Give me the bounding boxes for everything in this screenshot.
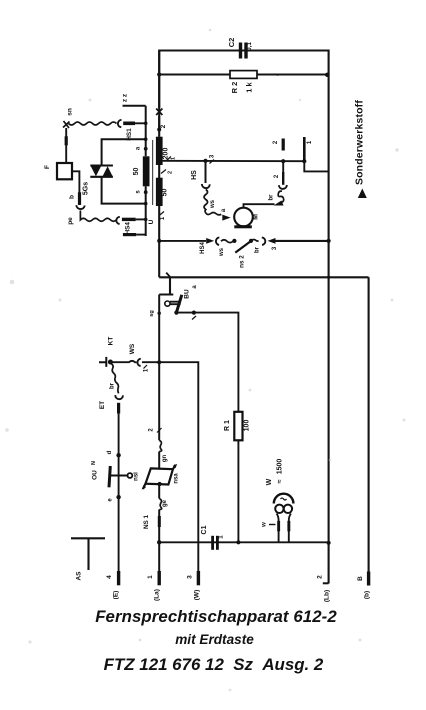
svg-text:N: N xyxy=(91,461,97,465)
node HS1 junction xyxy=(144,122,148,126)
contact hook row right xyxy=(262,237,266,245)
svg-text:R 2: R 2 xyxy=(230,82,239,94)
wire right rail V2 xyxy=(328,75,330,584)
svg-text:0,1: 0,1 xyxy=(246,42,253,51)
svg-text:C1: C1 xyxy=(201,525,208,534)
node R1 at bottom rail xyxy=(236,540,240,544)
cord ws coil xyxy=(204,190,221,215)
wire HS1 to rail xyxy=(135,122,146,124)
pin tick x1 between windings xyxy=(167,157,172,161)
pin tick 1 below winding 50 xyxy=(159,212,164,216)
svg-text:OU: OU xyxy=(92,470,99,480)
terminal 2 Lb tick xyxy=(323,582,329,584)
wire F to b cord xyxy=(72,171,79,205)
blade tip nsa xyxy=(173,465,176,470)
svg-text:e: e xyxy=(108,498,114,502)
terminal bar on b wire xyxy=(78,192,81,205)
svg-text:2: 2 xyxy=(168,171,174,174)
clamp HS1 hook xyxy=(118,120,122,127)
dial contact nsi nsa parallelogram xyxy=(146,468,173,484)
svg-text:w: w xyxy=(262,522,268,528)
terminal 4 E bar xyxy=(117,571,120,585)
bell W tilde xyxy=(281,498,287,500)
contact hook br top xyxy=(279,185,287,189)
wire sn cord wavy xyxy=(69,122,117,125)
svg-text:pe: pe xyxy=(67,217,74,225)
node KT dot xyxy=(108,360,113,365)
node row241 left junction xyxy=(157,239,161,243)
svg-text:2: 2 xyxy=(273,140,279,144)
node dot on R2 wire xyxy=(276,74,278,76)
svg-text:br: br xyxy=(255,246,261,253)
svg-text:2: 2 xyxy=(160,124,167,128)
cord kink at sn end xyxy=(63,121,70,128)
clamp HS4 bar lower xyxy=(123,233,136,236)
wire bottom rail y542 xyxy=(159,541,328,543)
wire top loop (node 2 rail) xyxy=(159,51,328,130)
svg-text:a: a xyxy=(136,146,142,150)
svg-text:R 1: R 1 xyxy=(224,420,231,431)
svg-text:HS4: HS4 xyxy=(200,242,206,254)
wire sn down to F xyxy=(65,128,67,163)
svg-text:1: 1 xyxy=(144,368,150,372)
contact hook WS xyxy=(137,359,140,366)
svg-text:B: B xyxy=(357,576,364,581)
socket BU circle xyxy=(165,301,170,306)
svg-text:Fernsprechtischapparat 612-2: Fernsprechtischapparat 612-2 xyxy=(95,607,337,626)
wire 1 stub to right rail xyxy=(304,161,328,171)
svg-text:sg: sg xyxy=(149,310,155,316)
wire KT row xyxy=(110,361,136,362)
svg-text:(La): (La) xyxy=(154,589,161,601)
node a terminal dot xyxy=(144,147,148,151)
wire pe cord wavy xyxy=(80,211,116,222)
bell W gong right xyxy=(284,505,292,513)
button OU knob xyxy=(127,473,132,478)
cord ws row wavy xyxy=(221,240,234,243)
bell W leg left xyxy=(277,514,279,521)
wire hook-switch row left xyxy=(159,240,206,242)
node HS4 junction xyxy=(144,218,148,222)
terminal bar bell right xyxy=(287,521,290,531)
tick 1 at WS xyxy=(144,365,148,369)
label Sonderwerkstoff xyxy=(355,100,367,198)
node junction 1 xyxy=(302,159,306,163)
svg-text:ws: ws xyxy=(210,199,216,209)
cord br coil xyxy=(278,191,284,202)
arrow into microphone xyxy=(222,215,230,221)
wire microphone top to br xyxy=(244,204,275,208)
arrow HS4 right-pointing xyxy=(206,238,214,244)
transformer winding 50 left xyxy=(143,156,150,186)
node HS junction xyxy=(203,159,207,163)
svg-text:3: 3 xyxy=(210,154,216,158)
svg-text:W: W xyxy=(266,478,273,485)
transformer winding 200 xyxy=(156,137,163,165)
svg-text:HS1: HS1 xyxy=(126,128,133,141)
terminal bar on sn wire xyxy=(65,136,68,145)
svg-text:ge: ge xyxy=(162,499,168,507)
node dot sg xyxy=(158,312,161,315)
svg-text:ws: ws xyxy=(219,247,225,257)
node ns2 left dot xyxy=(232,239,236,243)
node diode rail junction xyxy=(144,137,148,141)
node s terminal dot xyxy=(144,190,148,194)
svg-text:3: 3 xyxy=(272,246,278,250)
wire left rail V1 upper xyxy=(158,51,160,137)
svg-text:nsi: nsi xyxy=(134,472,140,481)
svg-text:M: M xyxy=(253,214,260,220)
contact hook ET xyxy=(115,395,123,399)
svg-text:100: 100 xyxy=(244,420,251,432)
svg-text:(b): (b) xyxy=(364,591,371,599)
svg-text:b: b xyxy=(69,195,76,199)
svg-text:HS4: HS4 xyxy=(124,222,131,235)
node junction R2 right xyxy=(325,73,329,77)
cord fork hook xyxy=(76,205,84,209)
node V1b at y542 xyxy=(157,540,161,544)
svg-text:br: br xyxy=(110,382,116,389)
capacitor C2 xyxy=(239,43,248,59)
svg-text:KT: KT xyxy=(108,337,115,346)
cord br row wavy xyxy=(251,240,259,242)
svg-text:AS: AS xyxy=(76,571,83,581)
svg-text:1: 1 xyxy=(147,575,154,579)
node nsi bottom dot xyxy=(158,482,162,486)
svg-text:mit Erdtaste: mit Erdtaste xyxy=(175,632,254,647)
wire R2 branch xyxy=(159,74,328,76)
cord br ET wavy xyxy=(111,364,119,394)
node dot 2 on left rail xyxy=(157,128,161,132)
bell W gong left xyxy=(275,505,283,513)
wire stub2 to rail xyxy=(282,161,284,172)
wire HS stub down xyxy=(205,161,207,183)
svg-text:1: 1 xyxy=(307,140,313,144)
terminal bar ET xyxy=(117,403,120,414)
stub 2 thick xyxy=(282,172,284,185)
wire HS4 lower to rail xyxy=(136,234,146,236)
cord gn coil xyxy=(159,440,161,451)
resistor R2 xyxy=(230,71,257,79)
switch blade ns2 xyxy=(235,241,251,253)
receiver F box xyxy=(57,163,72,179)
wire left winding rail xyxy=(145,106,147,236)
pin tick 3 at HS junction xyxy=(210,160,215,164)
svg-text:U: U xyxy=(148,219,155,224)
socket BU fork lines xyxy=(170,302,181,305)
tick w at bell xyxy=(269,524,276,526)
contact hook row left xyxy=(216,237,219,245)
capacitor C1 xyxy=(211,536,219,550)
contact hook HS xyxy=(202,184,210,188)
svg-text:WS: WS xyxy=(129,343,136,354)
svg-text:(W): (W) xyxy=(194,590,201,600)
svg-text:(Lb): (Lb) xyxy=(324,590,331,602)
svg-text:F: F xyxy=(44,165,51,169)
svg-text:BU: BU xyxy=(184,289,191,299)
resistor R1 xyxy=(234,412,242,441)
node junction 2 xyxy=(281,159,285,163)
svg-text:a: a xyxy=(192,285,198,289)
node V2 at y543 xyxy=(327,541,331,545)
transformer core xyxy=(152,140,154,205)
wire diode top rail xyxy=(102,139,146,165)
terminal 1 La bar xyxy=(158,571,161,585)
svg-text:sn: sn xyxy=(67,108,74,116)
svg-text:2: 2 xyxy=(274,174,280,178)
node d dot xyxy=(116,453,120,457)
bell W dome xyxy=(274,494,294,504)
node ns2 right dot xyxy=(249,239,253,243)
terminal bar NS1 xyxy=(158,516,161,527)
arrowhead nsi xyxy=(142,485,146,490)
button OU blade xyxy=(109,466,110,487)
svg-text:z z: z z xyxy=(122,93,129,102)
wire plug drop xyxy=(159,277,173,294)
terminal bar bell left xyxy=(277,521,280,531)
svg-text:1 k: 1 k xyxy=(244,81,253,92)
wire bell right xyxy=(288,520,290,542)
svg-text:4: 4 xyxy=(106,575,113,579)
wire BU to R1 branch xyxy=(176,313,238,412)
svg-text:a: a xyxy=(221,208,227,212)
diode pair 5Gs xyxy=(90,166,113,177)
svg-text:s: s xyxy=(136,190,142,194)
node bottom rail x V2 xyxy=(327,276,330,279)
pin tick x2 between windings xyxy=(161,170,166,174)
tick c below BU wire xyxy=(192,316,196,320)
wire rect bottom rail xyxy=(159,276,368,278)
wire left rail through windings xyxy=(158,137,160,278)
terminal B bar xyxy=(367,572,370,586)
clamp HS1 bar xyxy=(123,122,135,126)
svg-text:nsa: nsa xyxy=(174,473,180,484)
arrow br left-pointing xyxy=(268,238,276,244)
svg-text:1: 1 xyxy=(218,535,225,539)
terminal 3 W bar xyxy=(197,571,200,585)
svg-text:C2: C2 xyxy=(227,38,236,48)
svg-text:(E): (E) xyxy=(113,591,120,600)
terminal 2 top stub xyxy=(282,139,285,151)
svg-text:gn: gn xyxy=(162,455,168,463)
contact KT base xyxy=(99,357,106,367)
wire diode bottom rail xyxy=(102,177,146,204)
svg-text:1: 1 xyxy=(160,216,166,220)
plug blade BU xyxy=(176,295,181,313)
wire V1b main left rail xyxy=(158,295,160,572)
svg-text:50: 50 xyxy=(162,189,169,197)
bell W leg right xyxy=(289,514,291,521)
arrow br onto wire xyxy=(274,201,284,206)
clamp HS4 hook xyxy=(116,217,119,224)
svg-text:2: 2 xyxy=(317,575,324,579)
wire row right to rail xyxy=(275,240,329,242)
svg-text:1: 1 xyxy=(171,157,177,160)
node blade junction xyxy=(174,311,178,315)
svg-text:200: 200 xyxy=(163,148,170,160)
wire speech rail y161 xyxy=(162,160,304,162)
arrowhead nsa xyxy=(173,464,177,468)
svg-text:FTZ 121 676 12 Sz Ausg. 2: FTZ 121 676 12 Sz Ausg. 2 xyxy=(104,655,324,674)
wire far right rail V3 xyxy=(368,277,370,585)
node row right junction xyxy=(327,239,331,243)
transformer winding 50 right xyxy=(156,178,163,206)
tick 2 on V1b xyxy=(157,428,162,433)
node junction R2 left xyxy=(157,72,161,76)
microphone M circle xyxy=(234,208,253,227)
svg-text:1500: 1500 xyxy=(277,459,284,475)
svg-text:5Gs: 5Gs xyxy=(83,182,90,195)
wire ET down xyxy=(118,414,120,571)
wire HS4 to rail xyxy=(136,218,146,220)
node WS x V1b junction xyxy=(157,360,161,364)
svg-text:50: 50 xyxy=(133,168,140,176)
earth AS tee xyxy=(71,538,105,570)
node e dot xyxy=(116,495,120,499)
node diode bottom junction xyxy=(144,202,148,206)
clamp HS4 bar upper xyxy=(122,218,136,221)
blade tip nsi xyxy=(143,484,146,489)
wire bell left xyxy=(278,520,280,542)
tick b at rect bottom xyxy=(166,273,170,277)
svg-text:Sonderwerkstoff: Sonderwerkstoff xyxy=(355,100,366,185)
cord ge coil xyxy=(159,499,161,510)
svg-text:ET: ET xyxy=(99,401,106,409)
svg-text:NS 1: NS 1 xyxy=(143,515,150,529)
svg-text:HS: HS xyxy=(191,170,198,180)
svg-text:≈: ≈ xyxy=(277,479,284,483)
button OU rod xyxy=(111,474,128,476)
svg-text:d: d xyxy=(107,450,113,454)
svg-text:3: 3 xyxy=(187,575,194,579)
wire WS to W branch xyxy=(142,362,198,571)
node on BU wire xyxy=(192,311,196,315)
wire R1 to bottom rail xyxy=(237,440,239,542)
separation point x on left rail xyxy=(156,109,162,116)
wire zz stub xyxy=(123,105,146,107)
svg-text:br: br xyxy=(269,194,275,201)
microphone M bottom bar xyxy=(234,225,252,228)
svg-text:ns 2: ns 2 xyxy=(239,255,246,268)
terminal 1 stub xyxy=(303,137,306,161)
svg-text:2: 2 xyxy=(149,428,155,432)
